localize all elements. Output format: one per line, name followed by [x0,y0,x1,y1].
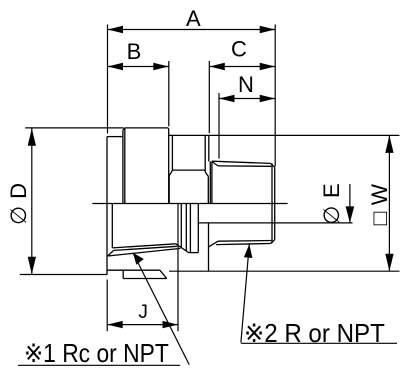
minor diameter line [198,222,274,224]
mid hex left lower edge [168,176,170,203]
hex left inner edge [124,128,126,204]
mid hex right flare [205,172,208,176]
body front bottom middle [114,246,177,250]
facet line 2 [180,204,182,248]
svg-text:J: J [138,302,148,323]
svg-text:□W: □W [367,177,392,225]
body front left edge [111,204,113,248]
dimension J [107,204,178,332]
body front bottom lower [108,248,181,256]
bottom tab left edge [122,270,124,278]
hex top edge [125,127,168,129]
mid hex right edge [204,135,206,172]
step front vertical [197,204,199,253]
mid hex chamfer top connector [172,169,205,171]
thread tip outer edge [274,167,276,239]
svg-text:B: B [127,39,142,64]
dimension B [108,39,169,126]
waist parting line [92,203,287,205]
svg-text:∅D: ∅D [6,176,31,225]
thread crest bottom [216,244,271,245]
facet line 3 [185,204,187,252]
bottom tab top [123,269,160,271]
mid hex left flare [169,170,172,176]
dimension C [209,36,275,133]
facet line 4 [189,204,191,253]
thread root bottom [218,240,271,243]
svg-text:C: C [231,36,247,61]
thread base chamfer top [212,161,219,166]
hex right edge [168,129,170,204]
collar bottom shelf [107,269,123,271]
fitting body: collar left edge [106,137,108,275]
mid hex right outer edge [208,135,210,161]
body bottom left diag [108,250,114,255]
thread base line 1 [209,161,211,203]
thread tip chamfer top [271,163,275,167]
svg-text:※1 Rc or NPT: ※1 Rc or NPT [24,338,169,368]
dimension square W [169,135,400,271]
thread base line 2 [211,161,213,203]
thread base chamfer bottom [209,241,218,247]
thread crest top [212,161,271,163]
dimension N [219,72,275,159]
dimension phi D [6,128,124,275]
thread tip inner edge [271,163,273,243]
dimension A [108,6,276,167]
collar top edge [107,136,123,138]
svg-text:N: N [238,72,254,97]
mid hex right lower edge [207,176,209,203]
mid hex left edge [171,135,173,170]
step drop vertical [208,223,210,271]
hex top-left chamfer [123,128,125,130]
note 2 leader [241,244,397,348]
svg-text:∅E: ∅E [319,176,344,225]
svg-text:A: A [186,6,201,31]
bottom tab right diag [160,270,167,278]
collar/hex joint vertical [122,130,124,204]
thread tip chamfer bottom [271,240,275,244]
dimension phi E [275,176,355,225]
bottom tab bottom [123,278,167,280]
hex top-right chamfer [167,127,170,130]
thread root top [219,165,272,167]
note 1 leader [18,253,189,368]
body front bottom upper [112,244,176,248]
body front bottom upper right diag [176,244,189,253]
step front bottom edge [189,252,199,254]
